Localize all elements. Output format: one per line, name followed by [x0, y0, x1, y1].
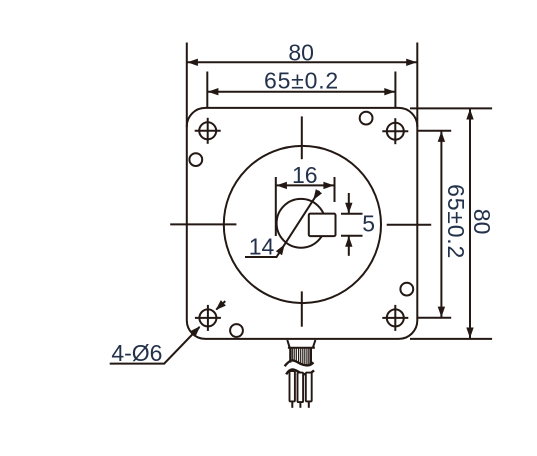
- dim 16: arrow right: [323, 182, 334, 189]
- leader 4-O6 line: [110, 327, 200, 364]
- hole diameter arrow pointing at hole: [213, 300, 226, 313]
- mounting hole top-left: [195, 118, 221, 144]
- motor flange plate outline: [187, 108, 417, 339]
- dim 16: extension line left: [275, 177, 277, 236]
- center mark tick bottom: [301, 291, 303, 326]
- cable collar shoulder line: [288, 347, 315, 349]
- dim 65 top: extension line right: [394, 72, 396, 109]
- dim 65 top: arrow left: [208, 88, 219, 95]
- dim 5: extension tick bottom: [341, 235, 363, 237]
- dim 80 right: arrow bottom: [466, 328, 473, 339]
- dim 5: upper line segment: [348, 193, 350, 213]
- small hole lower-right: [400, 283, 413, 296]
- dim 5: extension tick top: [341, 213, 363, 215]
- cable collar left slant: [287, 340, 289, 347]
- center mark tick top: [301, 116, 303, 159]
- svg-text:80: 80: [469, 209, 495, 235]
- center mark tick right: [387, 224, 432, 226]
- cable gland hatch lines: [292, 349, 309, 366]
- right side: bottom hole extension line: [418, 317, 452, 319]
- keyway rectangle: [309, 214, 336, 237]
- small hole upper-right: [360, 112, 373, 125]
- dim 80 right: dimension line: [469, 109, 471, 338]
- right side: top hole extension line: [418, 130, 452, 132]
- dim 16: extension line right: [334, 177, 336, 202]
- cable break wavy line 1: [285, 360, 314, 366]
- dim 80 right: arrow top: [466, 109, 473, 120]
- pilot boss circle: [224, 146, 381, 303]
- dim 65 right: arrow top: [438, 131, 445, 142]
- dim 80 top: arrow left: [187, 59, 198, 66]
- svg-text:80: 80: [288, 39, 314, 65]
- hole diameter arrow tail upper-right: [216, 301, 225, 309]
- dim 14 arrow upper-right: [310, 189, 322, 202]
- svg-text:5: 5: [362, 211, 375, 237]
- dim 65 right: dimension line: [440, 131, 442, 317]
- dim 80 top: extension line right: [416, 43, 418, 128]
- cable break wavy line 2: [286, 369, 314, 374]
- dim 80 top: dimension line: [187, 61, 416, 63]
- wire stub 1: [291, 401, 293, 407]
- wire sleeve 3: [306, 373, 312, 402]
- mounting hole bottom-right: [382, 305, 408, 331]
- mounting hole bottom-left: [195, 305, 221, 331]
- right side: top edge extension line: [410, 107, 492, 109]
- dim 80 top: extension line left: [186, 43, 188, 128]
- dim 65 top: dimension line: [208, 91, 395, 93]
- dim 14 leader polyline: [245, 191, 319, 257]
- dim 16: arrow left: [276, 182, 287, 189]
- dim 16: dimension line: [276, 184, 334, 186]
- leader 4-O6 arrow: [190, 324, 203, 337]
- cable collar right slant: [313, 340, 315, 347]
- wire stub 2: [299, 402, 301, 408]
- wire stub 3: [308, 401, 310, 407]
- dim 65 right: arrow bottom: [438, 307, 445, 318]
- shaft circle: [277, 199, 326, 248]
- dim 14 arrow lower-left: [276, 242, 288, 255]
- dim 65 top: extension line left: [206, 72, 208, 109]
- right side: bottom edge extension line: [410, 338, 492, 340]
- small hole upper-left: [189, 153, 202, 166]
- mounting hole top-right: [382, 118, 408, 144]
- svg-text:16: 16: [292, 162, 318, 188]
- center mark tick left: [170, 223, 236, 225]
- dim 5: lower line segment: [348, 236, 350, 256]
- svg-text:65±0.2: 65±0.2: [443, 184, 469, 259]
- dim 5: arrow up: [345, 236, 352, 247]
- cable gland hatch edges: [290, 349, 311, 365]
- dim 5: arrow down: [345, 203, 352, 214]
- wire sleeve 2: [298, 373, 304, 403]
- svg-text:4-Ø6: 4-Ø6: [111, 340, 162, 366]
- svg-text:65±0.2: 65±0.2: [264, 67, 339, 93]
- svg-text:14: 14: [249, 233, 275, 259]
- small hole lower-left: [230, 324, 243, 337]
- dim 65 top: arrow right: [384, 88, 395, 95]
- wire sleeve 1: [290, 371, 295, 401]
- dim 80 top: arrow right: [406, 59, 417, 66]
